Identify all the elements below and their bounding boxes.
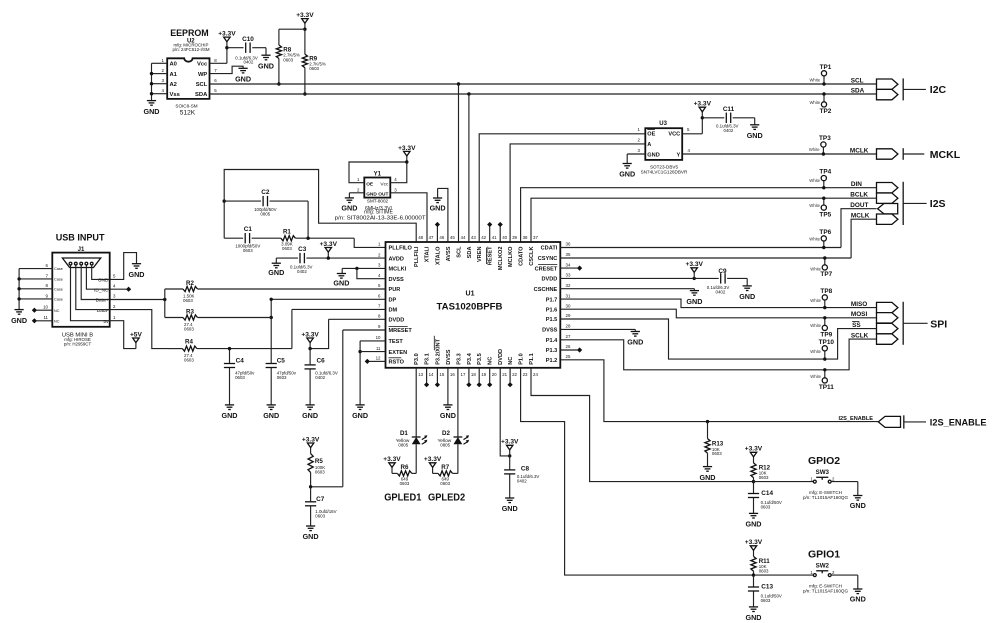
svg-text:+5V: +5V [130,331,143,338]
svg-text:Case: Case [54,298,63,302]
svg-text:+3.3V: +3.3V [302,436,320,443]
wire AVDD line with C3 [276,258,385,263]
svg-text:+3.3V: +3.3V [398,145,416,152]
svg-text:VCC: VCC [668,131,680,137]
svg-text:0402: 0402 [724,128,734,133]
svg-text:SDA: SDA [851,87,865,94]
IC U3 SN74LVC1G126 buffer [638,121,691,174]
wire R9 to SDA line [303,68,306,96]
svg-text:+3.3V: +3.3V [320,241,338,248]
no-connect diamond RSTO [365,359,386,364]
svg-text:0402: 0402 [244,60,254,65]
ground at R13 [700,467,716,482]
svg-text:GND: GND [627,338,643,347]
I2S port arrow DOUT input [878,204,898,214]
wire P3.3 to LED D2 [457,368,459,437]
svg-text:P3.3: P3.3 [457,353,463,365]
svg-text:TP4: TP4 [819,169,831,176]
svg-text:USB INPUT: USB INPUT [56,233,105,244]
svg-text:White: White [810,349,821,354]
svg-text:P1.0: P1.0 [519,353,525,365]
svg-text:C13: C13 [761,584,773,591]
svg-text:10: 10 [43,305,48,310]
svg-text:TP5: TP5 [819,211,831,218]
svg-text:SPI: SPI [930,318,947,330]
svg-text:White: White [809,178,820,183]
svg-text:0402: 0402 [716,289,726,294]
resistor R1 3.09K [281,228,296,251]
svg-text:P1.3: P1.3 [546,348,558,354]
svg-text:0805: 0805 [398,443,408,448]
capacitor C13 0.1uF [748,575,782,607]
svg-text:GND: GND [258,61,274,70]
svg-text:TP1: TP1 [820,64,832,71]
GPIO1 label [808,548,840,560]
svg-text:MCLKI: MCLKI [389,267,407,273]
svg-text:OE: OE [366,181,374,187]
svg-text:+3.3V: +3.3V [383,456,401,463]
SPI port arrow SCLK [877,334,898,344]
svg-text:I2S_ENABLE: I2S_ENABLE [838,416,873,422]
no-connect diamonds J1 pins 10 11 [32,308,53,324]
capacitor C2 100pF [254,189,277,216]
wire U3 GND to ground [627,154,645,164]
junction R13 [706,420,709,423]
svg-text:MRESET: MRESET [389,328,413,334]
wire P1.0 to GPIO1 line [521,368,754,575]
svg-text:SCL: SCL [851,77,864,84]
svg-text:+3.3V: +3.3V [301,331,319,338]
J1 right pin numbers [113,274,116,320]
U1 top pin names and numbers [414,235,538,270]
ground at DVSS pin28 [627,332,643,347]
ground at C13 [746,607,762,622]
resistor R12 10K [751,463,771,483]
svg-text:TEST: TEST [389,339,404,345]
I2S_ENABLE port arrow input [878,416,900,427]
svg-text:PLLFILI: PLLFILI [414,246,420,267]
ground at U3 [619,164,635,179]
svg-text:26: 26 [566,344,571,349]
power +3.3V at C6 node [301,331,319,350]
wire MRESET to R5 C7 node [311,330,386,487]
svg-text:Case: Case [54,278,63,282]
svg-text:ID_NC: ID_NC [94,287,109,293]
svg-text:SS: SS [852,322,861,329]
svg-text:0402: 0402 [315,375,325,380]
svg-text:P1.6: P1.6 [546,307,558,313]
svg-text:DIN: DIN [851,181,862,188]
U1 left pin names and numbers [376,242,413,366]
svg-text:Case: Case [54,287,63,291]
svg-text:RSTO: RSTO [389,360,405,366]
svg-text:GND: GND [700,473,716,482]
svg-text:0603: 0603 [761,598,771,603]
svg-text:45: 45 [450,235,455,240]
svg-text:XTALI: XTALI [425,246,431,262]
svg-text:GND: GND [352,411,368,420]
svg-text:Vss: Vss [170,92,180,98]
resistor R7 649 [433,464,458,486]
net label MCLK I2S [851,213,870,220]
ground at SW2 [850,589,866,604]
svg-text:10: 10 [376,335,381,340]
svg-text:GND: GND [302,411,318,420]
resistor R8 2.7K pullup SCL [276,45,300,62]
no-connect diamonds U1 bottom pins [424,368,513,388]
power +3.3V at R7 [424,456,442,473]
wire +3.3V to R8 and R9 tops [279,29,305,54]
svg-text:0603: 0603 [235,375,245,380]
svg-text:TP11: TP11 [819,384,834,391]
ground at C8 [502,498,518,513]
svg-text:GND: GND [11,316,27,325]
svg-text:31: 31 [566,293,571,298]
svg-text:15: 15 [439,372,444,377]
test point TP3 on MCLK [809,135,831,156]
svg-text:+3.3V: +3.3V [745,446,763,453]
svg-text:C3: C3 [298,246,307,253]
svg-text:37: 37 [533,235,538,240]
svg-text:21: 21 [502,372,507,377]
wire U1 CSCLK pin37 to BCLK [531,198,877,242]
svg-text:0603: 0603 [243,248,253,253]
svg-text:GPIO1: GPIO1 [808,548,840,560]
svg-text:20: 20 [492,372,497,377]
wire R8 to SCL line [277,59,280,86]
svg-text:OE: OE [647,131,655,137]
connector J1 USB mini-B [52,247,109,347]
wire SW3 to ground [831,482,858,496]
resistor R11 10K [751,556,770,576]
wire SCL net [210,83,877,85]
svg-text:27: 27 [566,334,571,339]
svg-text:C9: C9 [718,268,727,275]
wire DVSS pin16 to ground [447,368,449,405]
test point TP5 on BCLK [809,197,831,219]
svg-text:47: 47 [429,235,434,240]
svg-text:R6: R6 [401,464,409,471]
I2S port arrow MCLK [877,214,898,224]
I2C connector bar and stub [903,78,926,100]
svg-text:0805: 0805 [440,443,450,448]
svg-text:PUR: PUR [389,287,401,293]
svg-text:Data+: Data+ [96,298,109,304]
svg-text:p/n: TL1015AF160QG: p/n: TL1015AF160QG [803,495,849,500]
svg-text:TP7: TP7 [820,271,832,278]
svg-text:P3.4: P3.4 [467,352,473,364]
svg-text:0603: 0603 [712,451,722,456]
power +3.3V at U2 Vcc [218,31,236,50]
wire J1 case pins to ground [19,269,53,310]
svg-text:42: 42 [481,235,486,240]
svg-text:0603: 0603 [315,513,325,518]
resistor R2 1.50K [165,280,198,303]
svg-text:+3.3V: +3.3V [424,456,442,463]
svg-text:mfg: SITIME: mfg: SITIME [364,209,393,215]
I2S port arrow DIN [877,183,898,193]
svg-text:AVDD: AVDD [389,256,404,262]
svg-text:DOUT: DOUT [850,202,868,209]
svg-text:0603: 0603 [184,326,194,331]
IC U1 TAS1020BPFB [386,242,561,368]
svg-text:U1: U1 [466,291,475,298]
svg-text:C11: C11 [723,106,735,113]
svg-text:32: 32 [566,283,571,288]
resistor R3 27.4 [165,308,271,331]
svg-text:GND: GND [619,170,635,179]
svg-text:White: White [810,323,821,328]
svg-text:43: 43 [471,235,476,240]
svg-text:TP8: TP8 [820,288,832,295]
LED D1 yellow [396,430,428,473]
SPI port arrow MISO [877,302,898,312]
ground at SW3 [850,496,866,511]
svg-text:39: 39 [512,235,517,240]
svg-text:GND: GND [303,532,319,541]
svg-text:XTALO: XTALO [435,246,441,265]
svg-text:C1: C1 [244,226,253,233]
svg-text:P3.1: P3.1 [425,353,431,365]
wire U2 pins A0-Vss to ground rail [152,63,168,100]
wire J1 GND pin to ground symbol [110,253,137,280]
svg-text:+3.3V: +3.3V [218,31,236,38]
svg-text:0603: 0603 [400,481,410,486]
wire Y1 OUT to U1 XTALI [390,193,427,242]
svg-text:SCL: SCL [196,82,208,88]
I2S_ENABLE connector bar and stub [904,415,926,428]
net label MISO [851,301,867,308]
svg-text:0603: 0603 [283,57,293,62]
svg-text:36: 36 [566,242,571,247]
svg-text:GND: GND [647,152,659,158]
svg-text:R2: R2 [186,280,194,287]
svg-text:SW2: SW2 [816,563,830,570]
svg-text:19: 19 [481,372,486,377]
wire SDA net [210,93,877,95]
svg-text:Y1: Y1 [374,171,382,177]
no-connect diamond ID_NC [110,287,132,292]
svg-text:DVDD: DVDD [389,318,405,324]
svg-text:P1.5: P1.5 [546,317,558,323]
svg-text:+3.3V: +3.3V [296,12,314,19]
test point TP10 on SS net [810,339,834,361]
svg-text:0603: 0603 [759,568,769,573]
svg-text:D2: D2 [442,430,450,437]
wire C11 to ground [733,118,755,125]
svg-text:GND: GND [850,501,866,510]
svg-text:P1.7: P1.7 [546,297,558,303]
net label SCLK [851,332,869,339]
no-connect diamond MCLKO2 pin40 [498,222,503,242]
svg-text:p/n: TL1015AF160QG: p/n: TL1015AF160QG [803,589,849,594]
power +3.3V at R6 [383,456,401,473]
svg-text:PLLFILO: PLLFILO [389,246,413,252]
svg-text:P3.5: P3.5 [477,353,483,365]
svg-text:R4: R4 [185,338,193,345]
I2S label [930,198,946,210]
svg-text:EXTEN: EXTEN [389,350,408,356]
net label SDA [851,87,865,94]
svg-text:Y: Y [676,152,680,158]
svg-text:R7: R7 [441,464,449,471]
svg-text:SCL: SCL [457,246,463,258]
svg-text:NC: NC [54,319,60,323]
svg-text:GND: GND [222,411,238,420]
capacitor C8 0.1uF [504,456,539,498]
svg-text:GND: GND [268,268,284,277]
svg-text:DVSS: DVSS [446,349,452,365]
no-connect diamond P1.3 [560,347,582,352]
svg-text:0603: 0603 [183,298,193,303]
svg-text:5v: 5v [103,319,109,325]
svg-text:40: 40 [502,235,507,240]
svg-text:24: 24 [533,372,538,377]
svg-text:GND: GND [366,191,377,197]
resistor R4 27.4 [168,338,292,362]
no-connect diamond XTALO pin46 [435,222,440,242]
svg-text:+3.3V: +3.3V [694,101,712,108]
no-connect diamond RESET pin41 [487,222,492,242]
ground at C14 [746,513,762,528]
test point TP6 on CDATI [809,229,831,249]
junction SCL to U1 pin 44 [457,82,460,242]
wire Data+ to R2 R3 junction [110,289,167,318]
wire CDATI line to DOUT [560,247,841,249]
svg-text:GND: GND [341,204,357,213]
svg-text:44: 44 [461,235,466,240]
I2S_ENABLE label [930,418,987,428]
svg-text:MCLK: MCLK [850,147,869,154]
svg-text:46: 46 [439,235,444,240]
net label MCLK [850,147,869,154]
SPI connector bar and stub [903,302,927,345]
wire TEST EXTEN tied to ground [358,341,385,405]
net label SS [852,321,861,329]
test point TP7 on CSYNC [810,256,832,278]
ground at MCLKI [333,274,349,288]
wire U1 CDATO pin38 to DIN [521,188,877,242]
ground at DVSS pin16 [440,405,456,420]
ground at C4 [222,405,238,420]
svg-text:GPLED1: GPLED1 [384,493,422,504]
svg-text:GND: GND [850,595,866,604]
svg-text:GND: GND [235,75,251,84]
resistor R13 10K [705,422,724,467]
ground at C7 [303,526,319,541]
svg-text:GPLED2: GPLED2 [428,493,466,504]
svg-text:I2S_ENABLE: I2S_ENABLE [930,418,987,428]
MCKL label [930,149,961,161]
SPI port arrow SS [877,323,898,333]
svg-text:CSYNC: CSYNC [538,256,558,262]
svg-text:GND: GND [746,613,762,622]
svg-text:DM: DM [389,308,398,314]
svg-text:GND: GND [144,107,160,116]
I2C port arrow SCL [877,79,898,89]
capacitor C7 1.0uF [305,487,337,526]
svg-text:SN74LVC1G126DBVR: SN74LVC1G126DBVR [641,170,688,175]
wire +3.3V to C10 [227,47,244,49]
no-connect diamond CRESET [560,266,582,271]
capacitor C11 0.1uF [716,106,739,133]
svg-text:17: 17 [461,372,466,377]
capacitor C6 0.1uF [305,349,338,405]
svg-text:R3: R3 [186,308,194,315]
wire P1.5 to SS via TP10 [560,319,876,359]
svg-text:CRESET: CRESET [535,266,558,272]
svg-text:White: White [810,374,821,379]
svg-text:11: 11 [43,315,48,320]
ground at C11 [747,125,763,140]
wire DOUT to CDATI line [841,209,877,248]
junction R1 C2 [306,237,309,240]
svg-text:C4: C4 [236,358,245,365]
wire P1.1 to GPIO2 line [531,368,754,482]
ground at C5 [263,405,279,420]
ground at U2 WP [235,68,251,83]
svg-text:34: 34 [566,262,571,267]
svg-text:C6: C6 [317,358,326,365]
J1 internal wires from shell circles to pins [71,265,110,321]
power +3.3V at R5 [302,436,320,453]
wire DVDD pin21 to +3.3V C8 node [500,368,511,458]
wire P1.2 to I2S_ENABLE [560,360,878,422]
svg-text:29: 29 [566,313,571,318]
net label DOUT [850,202,868,209]
wire to switch SW2 [754,574,814,576]
svg-text:MCLK: MCLK [851,213,870,220]
I2C label [930,84,947,96]
svg-text:P1.2: P1.2 [546,358,558,364]
ground for U2 address pins [144,101,160,116]
svg-text:A1: A1 [170,72,178,78]
svg-text:SCLK: SCLK [851,332,869,339]
U1 bottom pin names and numbers [414,336,538,377]
capacitor C14 0.1uF [748,482,782,514]
svg-text:White: White [809,203,820,208]
svg-text:DVSS: DVSS [542,328,558,334]
svg-text:30: 30 [566,303,571,308]
power +3.3V at U3 [694,101,712,120]
power +3.3V at R11 [745,539,763,556]
ground at C10 [258,55,274,70]
wire U3 Y to MCKL arrow [682,153,876,155]
svg-text:DP: DP [389,298,397,304]
svg-text:VREN: VREN [477,247,483,263]
wire U3 VCC to +3.3V [682,118,702,134]
svg-text:MCLKO2: MCLKO2 [498,247,504,271]
power +3.3V at C8 [501,439,519,456]
power +3.3V at Y1 [398,145,416,164]
GPIO2 label [808,455,840,467]
wire U2 WP to ground [210,66,244,73]
svg-text:Data-: Data- [97,308,109,314]
svg-text:TP3: TP3 [819,135,831,142]
capacitor C3 0.1uF [290,246,313,274]
capacitor C1 1000pF [235,226,260,253]
ground at J1 case [11,310,27,325]
wire U1 AVSS pin45 to ground [438,188,448,242]
svg-text:BCLK: BCLK [850,192,868,199]
resistor R5 100K [308,454,325,489]
power +3.3V at R12 [745,446,763,463]
svg-text:CDATI: CDATI [541,246,558,252]
svg-text:TP10: TP10 [819,339,835,346]
capacitor C9 0.1uF [707,268,730,295]
svg-text:16: 16 [450,372,455,377]
J1 left pin numbers [43,263,48,320]
